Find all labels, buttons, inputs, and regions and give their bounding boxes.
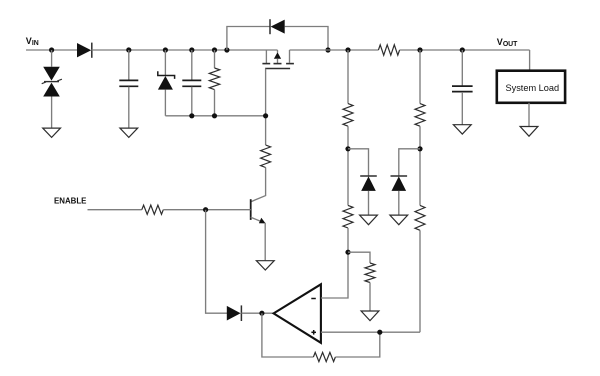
node VIN label	[26, 36, 39, 47]
ground under Q2 emitter	[256, 261, 274, 270]
wire bypass loop up and across	[227, 27, 270, 51]
node divider right top	[417, 47, 422, 52]
diode D4 clamp	[360, 176, 377, 215]
wire D3 to op-amp output node	[241, 312, 273, 314]
block System Load	[497, 71, 565, 103]
node C2 bottom	[189, 113, 194, 118]
diode D2 bypass (points left)	[270, 19, 285, 34]
ground under TVS	[43, 128, 61, 137]
transistor Q1 PMOS pass FET	[262, 50, 294, 69]
node plus input junction	[377, 330, 382, 335]
wire branch to R7	[348, 252, 370, 263]
resistor R1 input bleed	[209, 50, 219, 116]
resistor R9 enable series	[142, 205, 164, 214]
wire inverting input	[321, 252, 348, 298]
wire branch to D5	[399, 149, 420, 176]
node loop branch on rail	[224, 47, 229, 52]
transistor Q2 NPN	[251, 199, 266, 223]
node op-amp output junction	[259, 311, 264, 316]
node C2 top	[189, 47, 194, 52]
wire feedback path	[262, 313, 314, 357]
node left divider mid	[345, 146, 350, 151]
node gate junction	[263, 113, 268, 118]
node divider left top	[345, 47, 350, 52]
wire local bottom rail	[165, 115, 265, 117]
op-amp U1 comparator (points left)	[274, 284, 321, 343]
node zener top	[163, 47, 168, 52]
ground under R7	[361, 311, 379, 321]
node enable junction	[203, 207, 208, 212]
diode D3 to comparator output	[227, 305, 242, 321]
ground under System Load	[520, 127, 538, 137]
node right divider mid	[417, 146, 422, 151]
resistor R5 divider bottom left	[343, 205, 353, 228]
ground under C3	[453, 125, 471, 134]
node C1 top	[126, 47, 131, 52]
wire VOUT drop to load	[529, 50, 531, 71]
ground under C1	[120, 128, 138, 137]
wire rail to VOUT	[400, 49, 530, 51]
wire enable branch down	[206, 210, 227, 314]
capacitor C2	[182, 50, 201, 116]
node VIN junction	[49, 47, 54, 52]
wire R2 to collector	[251, 168, 266, 202]
node output cap top	[460, 47, 465, 52]
svg-text:VOUT: VOUT	[497, 37, 518, 48]
wire ENABLE lead	[88, 209, 142, 211]
wire R5 to minus node	[347, 228, 349, 252]
TVS diode Z1	[42, 50, 62, 128]
wire emitter down	[264, 223, 266, 261]
diode D5 clamp	[391, 176, 408, 215]
wire non-inverting input	[321, 331, 420, 333]
svg-text:VIN: VIN	[26, 36, 39, 47]
wire bypass loop right side	[285, 27, 329, 51]
capacitor C1	[119, 50, 138, 128]
node minus junction	[345, 250, 350, 255]
diode D1 series input	[77, 43, 92, 58]
resistor R10 rail sense	[378, 45, 399, 55]
wire gate pulldown vertical	[265, 69, 267, 146]
ground under D5	[390, 215, 408, 225]
resistor R8 feedback	[313, 352, 335, 361]
resistor R4 divider top right	[415, 50, 425, 205]
zener diode Z2	[158, 50, 175, 116]
wire enable to base	[163, 209, 250, 211]
node R1 top	[212, 47, 217, 52]
svg-text:ENABLE: ENABLE	[54, 197, 86, 206]
node loop rejoin on rail	[325, 47, 330, 52]
capacitor C3 output	[452, 50, 473, 125]
resistor R3 divider top left	[343, 50, 353, 205]
resistor R2 gate	[261, 145, 271, 168]
resistor R7 to ground	[365, 263, 375, 311]
wire main rail after D1	[92, 49, 278, 51]
node R1 bottom	[212, 113, 217, 118]
ground under D4	[360, 215, 378, 225]
svg-text:System Load: System Load	[505, 83, 559, 93]
wire branch to D4	[348, 149, 369, 176]
wire rail from FET to output	[290, 49, 379, 51]
wire feedback to plus node	[335, 332, 379, 357]
resistor R6 divider bottom right	[415, 205, 425, 332]
wire load to ground	[528, 103, 530, 127]
wire VIN input rail	[26, 49, 77, 51]
